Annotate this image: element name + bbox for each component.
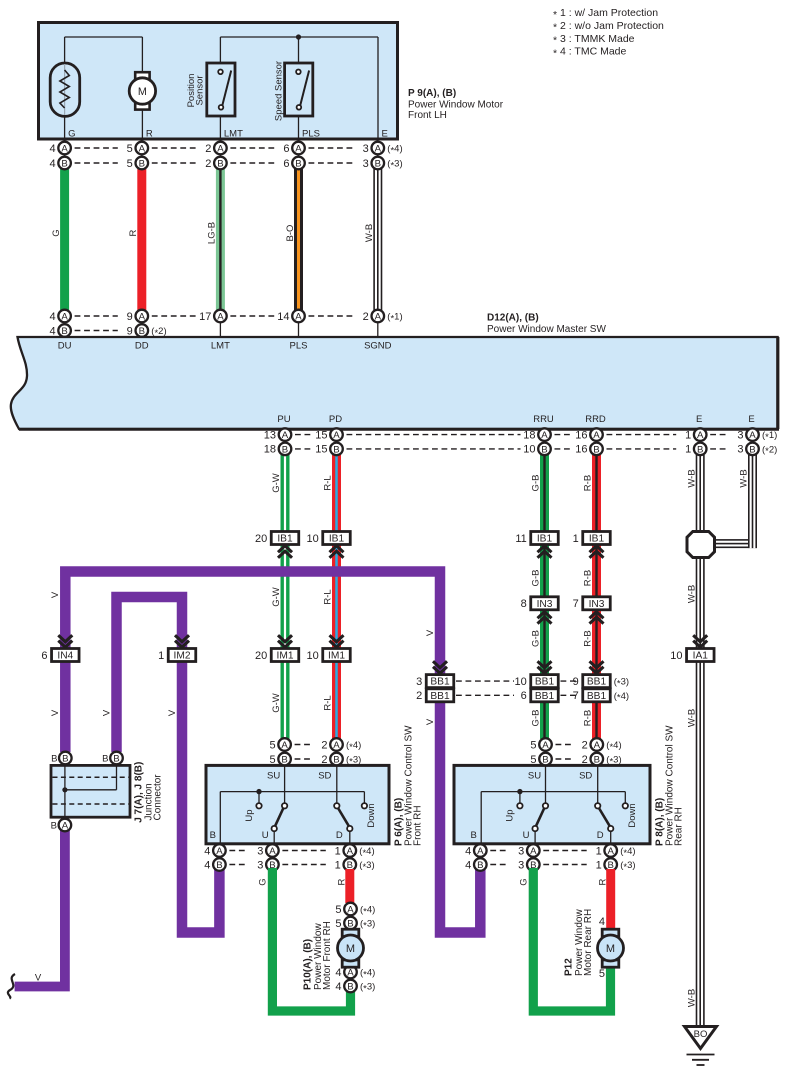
svg-text:W-B: W-B <box>739 469 750 487</box>
svg-text:SU: SU <box>267 771 280 782</box>
svg-text:17: 17 <box>199 311 211 323</box>
svg-text:IM2: IM2 <box>174 651 191 662</box>
svg-text:B: B <box>113 754 119 765</box>
svg-text:4: 4 <box>465 845 471 857</box>
svg-text:IM1: IM1 <box>328 651 345 662</box>
svg-text:Rear RH: Rear RH <box>674 807 685 846</box>
svg-text:B: B <box>697 444 703 455</box>
svg-text:R: R <box>128 229 139 236</box>
svg-text:1: 1 <box>685 444 691 456</box>
svg-text:BB1: BB1 <box>430 691 450 702</box>
svg-text:Front LH: Front LH <box>408 110 447 121</box>
svg-text:1: 1 <box>335 845 341 857</box>
svg-text:D: D <box>336 830 343 841</box>
svg-text:3: 3 <box>257 859 263 871</box>
svg-text:V: V <box>35 973 42 984</box>
svg-text:(*4): (*4) <box>614 691 629 704</box>
svg-text:G: G <box>51 229 62 236</box>
svg-text:SGND: SGND <box>364 341 392 352</box>
svg-text:BB1: BB1 <box>430 677 450 688</box>
svg-text:R: R <box>337 878 348 885</box>
svg-text:B: B <box>216 860 222 871</box>
svg-text:R-L: R-L <box>323 589 334 604</box>
svg-text:A: A <box>375 312 382 323</box>
svg-text:BB1: BB1 <box>587 691 607 702</box>
svg-text:B: B <box>139 326 145 337</box>
svg-text:B: B <box>102 753 108 764</box>
svg-text:5: 5 <box>335 904 341 916</box>
svg-text:(*1): (*1) <box>387 312 402 325</box>
svg-text:A: A <box>217 144 224 155</box>
svg-text:(*2): (*2) <box>762 444 777 457</box>
svg-text:B: B <box>477 860 483 871</box>
svg-text:(*3): (*3) <box>360 919 375 932</box>
svg-text:4: 4 <box>335 967 341 979</box>
svg-text:A: A <box>333 740 340 751</box>
svg-text:Motor Front RH: Motor Front RH <box>322 921 333 990</box>
svg-text:9: 9 <box>127 325 133 337</box>
svg-text:A: A <box>281 740 288 751</box>
svg-text:1: 1 <box>158 650 164 662</box>
svg-text:A: A <box>139 312 146 323</box>
svg-text:(*4): (*4) <box>606 740 621 753</box>
svg-text:Up: Up <box>244 809 255 821</box>
svg-text:4: 4 <box>599 916 605 928</box>
svg-text:6: 6 <box>41 650 47 662</box>
svg-text:R-B: R-B <box>583 710 594 726</box>
svg-text:M: M <box>346 943 355 955</box>
svg-text:A: A <box>542 740 549 751</box>
svg-text:A: A <box>216 846 223 857</box>
svg-text:15: 15 <box>315 429 327 441</box>
svg-text:* 2 : w/o Jam Protection: * 2 : w/o Jam Protection <box>553 20 664 34</box>
svg-text:LG-B: LG-B <box>207 222 218 244</box>
svg-text:16: 16 <box>575 429 587 441</box>
svg-text:E: E <box>696 414 702 425</box>
svg-text:4: 4 <box>204 859 210 871</box>
svg-text:* 1 : w/ Jam Protection: * 1 : w/ Jam Protection <box>553 7 658 21</box>
svg-text:A: A <box>607 846 614 857</box>
svg-text:5: 5 <box>127 143 133 155</box>
svg-text:(*3): (*3) <box>360 982 375 995</box>
svg-text:G-B: G-B <box>531 570 542 587</box>
svg-text:6: 6 <box>283 143 289 155</box>
svg-text:(*4): (*4) <box>360 968 375 981</box>
svg-text:20: 20 <box>255 650 267 662</box>
svg-text:BB1: BB1 <box>587 677 607 688</box>
svg-text:(*4): (*4) <box>359 846 374 859</box>
svg-text:R-B: R-B <box>583 475 594 491</box>
svg-text:3: 3 <box>737 444 743 456</box>
svg-text:3: 3 <box>363 143 369 155</box>
svg-text:B: B <box>281 755 287 766</box>
svg-text:U: U <box>262 830 269 841</box>
svg-text:5: 5 <box>269 754 275 766</box>
svg-text:G-W: G-W <box>271 587 282 607</box>
svg-text:D: D <box>597 830 604 841</box>
svg-text:5: 5 <box>530 739 536 751</box>
svg-text:4: 4 <box>49 143 55 155</box>
svg-text:Power Window Master SW: Power Window Master SW <box>487 324 606 335</box>
svg-text:E: E <box>382 129 388 140</box>
svg-text:6: 6 <box>521 690 527 702</box>
svg-text:6: 6 <box>283 158 289 170</box>
svg-text:IB1: IB1 <box>277 534 293 545</box>
svg-text:A: A <box>477 846 484 857</box>
svg-text:A: A <box>697 430 704 441</box>
svg-text:(*3): (*3) <box>346 755 361 768</box>
svg-text:A: A <box>530 846 537 857</box>
svg-text:Down: Down <box>627 803 638 827</box>
svg-text:A: A <box>269 846 276 857</box>
svg-text:15: 15 <box>315 444 327 456</box>
svg-text:A: A <box>375 144 382 155</box>
svg-text:B: B <box>51 821 57 832</box>
svg-text:IA1: IA1 <box>693 651 709 662</box>
svg-text:A: A <box>61 312 68 323</box>
svg-text:W-B: W-B <box>686 585 697 603</box>
svg-text:G-B: G-B <box>531 630 542 647</box>
svg-text:(*3): (*3) <box>620 860 635 873</box>
svg-text:V: V <box>101 709 112 716</box>
svg-text:RRU: RRU <box>533 414 554 425</box>
svg-text:(*1): (*1) <box>762 430 777 443</box>
svg-text:IN3: IN3 <box>589 599 605 610</box>
svg-text:14: 14 <box>277 311 289 323</box>
svg-text:Up: Up <box>505 809 516 821</box>
svg-text:IM1: IM1 <box>277 651 294 662</box>
svg-text:3: 3 <box>518 859 524 871</box>
svg-text:DD: DD <box>135 341 149 352</box>
svg-text:2: 2 <box>363 311 369 323</box>
svg-text:* 3 : TMMK Made: * 3 : TMMK Made <box>553 33 635 47</box>
svg-text:W-B: W-B <box>686 709 697 727</box>
svg-text:G-W: G-W <box>271 473 282 493</box>
svg-text:IB1: IB1 <box>329 534 345 545</box>
svg-text:3: 3 <box>737 429 743 441</box>
svg-text:IB1: IB1 <box>589 534 605 545</box>
svg-text:LMT: LMT <box>211 341 230 352</box>
svg-text:16: 16 <box>575 444 587 456</box>
svg-text:A: A <box>593 430 600 441</box>
svg-text:R-B: R-B <box>583 630 594 646</box>
svg-text:A: A <box>139 144 146 155</box>
svg-text:PLS: PLS <box>290 341 308 352</box>
svg-text:2: 2 <box>321 739 327 751</box>
svg-text:3: 3 <box>257 845 263 857</box>
svg-text:G-B: G-B <box>531 475 542 492</box>
svg-text:RRD: RRD <box>585 414 606 425</box>
svg-text:V: V <box>425 718 436 725</box>
svg-text:W-B: W-B <box>686 989 697 1007</box>
svg-text:IB1: IB1 <box>537 534 553 545</box>
svg-text:G: G <box>519 878 530 885</box>
svg-text:5: 5 <box>335 918 341 930</box>
svg-text:SD: SD <box>579 771 592 782</box>
svg-text:B: B <box>282 444 288 455</box>
svg-text:PD: PD <box>329 414 342 425</box>
svg-text:V: V <box>50 709 61 716</box>
svg-text:G-W: G-W <box>271 693 282 713</box>
svg-text:IN3: IN3 <box>537 599 553 610</box>
svg-text:20: 20 <box>255 533 267 545</box>
svg-text:8: 8 <box>521 598 527 610</box>
svg-text:10: 10 <box>523 444 535 456</box>
svg-text:18: 18 <box>264 444 276 456</box>
svg-text:3: 3 <box>416 676 422 688</box>
svg-text:7: 7 <box>573 690 579 702</box>
svg-text:P 9(A), (B): P 9(A), (B) <box>408 88 456 99</box>
svg-text:A: A <box>594 740 601 751</box>
svg-text:B: B <box>375 159 381 170</box>
svg-text:R-B: R-B <box>583 570 594 586</box>
svg-text:(*3): (*3) <box>387 159 402 172</box>
svg-text:A: A <box>295 312 302 323</box>
svg-text:B: B <box>210 830 216 841</box>
svg-text:2: 2 <box>582 754 588 766</box>
svg-text:1: 1 <box>685 429 691 441</box>
svg-text:BO: BO <box>694 1029 708 1040</box>
svg-text:SU: SU <box>528 771 541 782</box>
svg-text:DU: DU <box>58 341 72 352</box>
svg-text:2: 2 <box>205 158 211 170</box>
svg-text:M: M <box>606 943 615 955</box>
svg-text:Front RH: Front RH <box>413 805 424 846</box>
svg-text:M: M <box>138 86 147 98</box>
svg-text:D12(A), (B): D12(A), (B) <box>487 313 539 324</box>
svg-text:B: B <box>594 755 600 766</box>
svg-text:2: 2 <box>582 739 588 751</box>
svg-text:LMT: LMT <box>224 129 243 140</box>
svg-text:U: U <box>523 830 530 841</box>
svg-text:A: A <box>749 430 756 441</box>
svg-text:A: A <box>333 430 340 441</box>
svg-text:A: A <box>347 846 354 857</box>
svg-text:3: 3 <box>363 158 369 170</box>
svg-text:PU: PU <box>277 414 290 425</box>
svg-text:Speed Sensor: Speed Sensor <box>273 61 284 121</box>
svg-text:B: B <box>62 754 68 765</box>
svg-text:V: V <box>167 709 178 716</box>
svg-text:B: B <box>61 159 67 170</box>
svg-text:R-L: R-L <box>323 695 334 710</box>
svg-text:2: 2 <box>321 754 327 766</box>
svg-text:BB1: BB1 <box>535 677 555 688</box>
svg-text:4: 4 <box>204 845 210 857</box>
svg-text:(*4): (*4) <box>387 144 402 157</box>
svg-text:10: 10 <box>307 650 319 662</box>
svg-text:B: B <box>541 444 547 455</box>
svg-text:E: E <box>748 414 754 425</box>
svg-text:13: 13 <box>264 429 276 441</box>
svg-text:G: G <box>258 878 269 885</box>
svg-text:(*4): (*4) <box>620 846 635 859</box>
svg-text:7: 7 <box>573 598 579 610</box>
svg-text:PLS: PLS <box>302 129 320 140</box>
svg-text:Sensor: Sensor <box>195 75 206 105</box>
svg-text:Power Window Motor: Power Window Motor <box>408 99 504 110</box>
svg-text:(*3): (*3) <box>359 860 374 873</box>
svg-text:G-B: G-B <box>531 710 542 727</box>
svg-text:1: 1 <box>335 859 341 871</box>
svg-text:9: 9 <box>127 311 133 323</box>
svg-text:18: 18 <box>523 429 535 441</box>
svg-text:B: B <box>593 444 599 455</box>
svg-text:11: 11 <box>515 533 526 545</box>
svg-text:B: B <box>51 753 57 764</box>
svg-text:IN4: IN4 <box>57 651 73 662</box>
svg-text:V: V <box>50 591 61 598</box>
svg-text:A: A <box>295 144 302 155</box>
svg-text:5: 5 <box>269 739 275 751</box>
svg-text:R: R <box>146 129 153 140</box>
svg-text:B: B <box>471 830 477 841</box>
svg-text:BB1: BB1 <box>535 691 555 702</box>
svg-text:3: 3 <box>518 845 524 857</box>
svg-text:B: B <box>542 755 548 766</box>
svg-text:B-O: B-O <box>285 225 296 242</box>
svg-text:B: B <box>749 444 755 455</box>
svg-text:10: 10 <box>670 650 682 662</box>
svg-text:4: 4 <box>49 325 55 337</box>
svg-text:A: A <box>61 144 68 155</box>
svg-text:(*3): (*3) <box>614 677 629 690</box>
svg-text:4: 4 <box>49 158 55 170</box>
svg-text:A: A <box>347 905 354 916</box>
svg-text:2: 2 <box>205 143 211 155</box>
svg-text:B: B <box>333 755 339 766</box>
svg-text:G: G <box>68 129 75 140</box>
svg-text:1: 1 <box>596 859 602 871</box>
svg-text:Motor Rear RH: Motor Rear RH <box>583 909 594 976</box>
svg-text:9: 9 <box>573 676 579 688</box>
svg-text:4: 4 <box>49 311 55 323</box>
svg-text:Down: Down <box>366 803 377 827</box>
svg-text:A: A <box>282 430 289 441</box>
svg-text:10: 10 <box>307 533 319 545</box>
svg-text:B: B <box>333 444 339 455</box>
svg-text:(*4): (*4) <box>346 740 361 753</box>
svg-text:B: B <box>217 159 223 170</box>
svg-text:2: 2 <box>416 690 422 702</box>
svg-text:B: B <box>295 159 301 170</box>
svg-text:A: A <box>347 968 354 979</box>
svg-text:W-B: W-B <box>364 224 375 242</box>
svg-text:(*4): (*4) <box>360 905 375 918</box>
svg-text:A: A <box>541 430 548 441</box>
svg-text:W-B: W-B <box>686 469 697 487</box>
svg-text:V: V <box>425 629 436 636</box>
svg-text:10: 10 <box>515 676 527 688</box>
svg-text:5: 5 <box>599 968 605 980</box>
svg-text:B: B <box>347 982 353 993</box>
svg-text:5: 5 <box>127 158 133 170</box>
svg-text:1: 1 <box>596 845 602 857</box>
svg-text:4: 4 <box>465 859 471 871</box>
svg-text:5: 5 <box>530 754 536 766</box>
svg-text:A: A <box>217 312 224 323</box>
svg-text:B: B <box>61 326 67 337</box>
svg-text:A: A <box>62 821 69 832</box>
svg-text:4: 4 <box>335 981 341 993</box>
svg-text:SD: SD <box>318 771 331 782</box>
svg-text:1: 1 <box>573 533 579 545</box>
svg-text:(*3): (*3) <box>606 755 621 768</box>
svg-text:B: B <box>139 159 145 170</box>
svg-text:Connector: Connector <box>153 774 164 821</box>
svg-text:R-L: R-L <box>323 475 334 490</box>
svg-text:* 4 : TMC Made: * 4 : TMC Made <box>553 46 626 60</box>
